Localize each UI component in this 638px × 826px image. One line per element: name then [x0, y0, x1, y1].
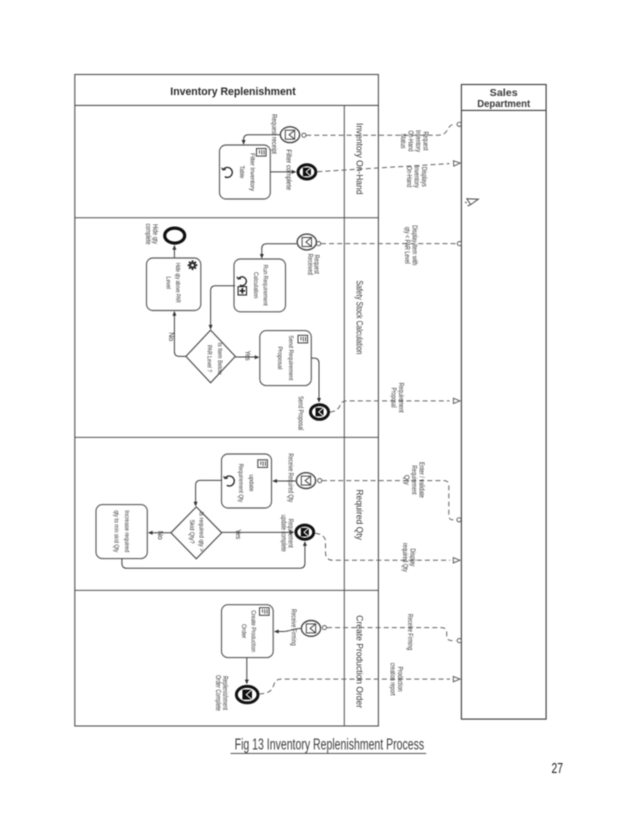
- svg-text:Inventory On-Hand: Inventory On-Hand: [355, 123, 365, 194]
- svg-text:Table: Table: [238, 166, 245, 179]
- svg-text:Status: Status: [399, 134, 406, 149]
- svg-text:Calculation: Calculation: [252, 272, 259, 299]
- svg-text:Create Production: Create Production: [250, 610, 257, 652]
- svg-text:Create Production Order: Create Production Order: [355, 615, 365, 708]
- svg-text:Sales: Sales: [490, 88, 518, 99]
- svg-text:Inventory: Inventory: [413, 166, 420, 188]
- svg-text:Receive Required Qty: Receive Required Qty: [286, 453, 293, 502]
- svg-text:required Qty: required Qty: [401, 543, 408, 572]
- svg-text:Yes: Yes: [234, 529, 241, 539]
- svg-text:Display: Display: [408, 548, 415, 566]
- svg-text:Request: Request: [421, 132, 428, 151]
- svg-text:Run Requirement: Run Requirement: [262, 265, 269, 306]
- svg-text:Send Proposal: Send Proposal: [297, 396, 304, 430]
- svg-text:On-Hand: On-Hand: [407, 131, 414, 152]
- svg-text:Request receipt: Request receipt: [270, 114, 277, 154]
- svg-text:No: No: [156, 531, 163, 540]
- svg-text:Enter / validate: Enter / validate: [417, 462, 424, 498]
- svg-text:Filter complete: Filter complete: [285, 149, 292, 190]
- svg-text:Filter Inventory: Filter Inventory: [248, 153, 255, 192]
- svg-text:Inventory Replenishment: Inventory Replenishment: [170, 86, 296, 98]
- svg-text:Increase required: Increase required: [123, 510, 130, 552]
- svg-text:Requirement: Requirement: [410, 465, 417, 494]
- svg-text:Department: Department: [477, 99, 531, 110]
- svg-text:Fig 13 Inventory Replenishment: Fig 13 Inventory Replenishment Process: [235, 737, 425, 754]
- svg-text:Is Item Below: Is Item Below: [216, 343, 223, 375]
- svg-text:Received: Received: [306, 254, 313, 275]
- svg-text:Safety Stock Calculation: Safety Stock Calculation: [355, 280, 365, 354]
- svg-text:Qty: Qty: [402, 475, 409, 485]
- svg-text:Skid Qty?: Skid Qty?: [188, 520, 195, 544]
- svg-text:Send Requirement: Send Requirement: [287, 335, 294, 380]
- svg-text:Level: Level: [165, 277, 172, 290]
- svg-text:creation report: creation report: [389, 663, 396, 696]
- svg-text:Is required qty >: Is required qty >: [198, 512, 205, 552]
- svg-text:qty < PAR Level: qty < PAR Level: [403, 227, 410, 264]
- svg-text:On-Hand: On-Hand: [405, 166, 412, 187]
- svg-text:Hide qty above PAR: Hide qty above PAR: [174, 263, 181, 303]
- svg-text:Hide qty: Hide qty: [151, 224, 158, 244]
- svg-text:Required Qty: Required Qty: [355, 489, 365, 540]
- svg-text:Requirement: Requirement: [397, 383, 404, 413]
- svg-text:Proposal: Proposal: [389, 388, 396, 408]
- svg-text:Replenishment: Replenishment: [221, 676, 228, 710]
- svg-text:No: No: [167, 332, 174, 341]
- svg-text:update complete: update complete: [280, 515, 287, 552]
- svg-text:update: update: [247, 475, 254, 492]
- svg-text:Inventory: Inventory: [414, 130, 421, 152]
- svg-text:PAR Level ?: PAR Level ?: [206, 345, 213, 372]
- svg-text:Order: Order: [240, 624, 247, 639]
- svg-text:complete: complete: [144, 224, 151, 245]
- svg-text:Production: Production: [396, 667, 403, 692]
- svg-text:Requirement Qty: Requirement Qty: [237, 464, 244, 503]
- svg-text:Order Complete: Order Complete: [214, 675, 221, 711]
- svg-text:Receive Firming: Receive Firming: [406, 614, 413, 650]
- svg-text:Receive Firming: Receive Firming: [290, 609, 297, 646]
- svg-text:Proposal: Proposal: [276, 346, 283, 369]
- svg-text:Display Item with: Display Item with: [411, 225, 418, 265]
- svg-text:qty to min skid Qty: qty to min skid Qty: [113, 510, 120, 553]
- svg-text:Yes: Yes: [243, 351, 250, 361]
- svg-text:Displays: Displays: [420, 167, 427, 187]
- svg-text:27: 27: [551, 760, 563, 777]
